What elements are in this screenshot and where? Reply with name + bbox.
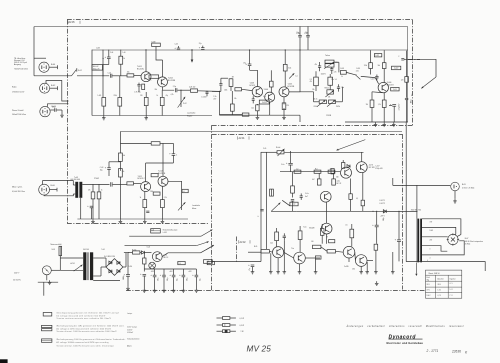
- boxed label PA 1-0xx: [282, 200, 298, 206]
- table column line 1: [434, 275, 436, 298]
- boxed label PSU b: [207, 262, 214, 266]
- svg-text:504 104: 504 104: [83, 249, 89, 251]
- table row line 2: [426, 286, 462, 288]
- svg-text:600 100 000: 600 100 000: [71, 179, 80, 181]
- svg-text:24 B: 24 B: [438, 284, 441, 286]
- resistor R tone mid: [310, 71, 319, 91]
- capacitor C-03: [100, 162, 121, 176]
- wire to preamp2 input: [198, 90, 220, 93]
- svg-text:C-5: C-5: [310, 79, 312, 81]
- pot P-01 bass 25k: [324, 60, 338, 69]
- left column PA wire b: [266, 152, 268, 249]
- ground row d: [172, 288, 176, 292]
- text PU 5B: [326, 115, 332, 117]
- transformer ground: [80, 198, 82, 219]
- svg-text:4,7n: 4,7n: [334, 72, 337, 74]
- svg-text:Tr-03: Tr-03: [74, 176, 78, 179]
- svg-text:B-05: B-05: [462, 184, 466, 186]
- svg-text:1-013: 1-013: [262, 102, 267, 104]
- svg-text:Radio: Radio: [12, 87, 16, 89]
- boxed label PA left: [204, 260, 213, 264]
- filter caps row C b: [160, 269, 169, 288]
- label T-006: [387, 82, 395, 86]
- svg-text:560: 560: [336, 177, 339, 179]
- wire mic upper to transformer: [43, 181, 74, 185]
- svg-text:16µ: 16µ: [100, 170, 103, 172]
- text 100mV: [321, 74, 327, 76]
- dash-dot stub at speaker output: [408, 59, 420, 61]
- svg-text:R-051: R-051: [132, 250, 136, 252]
- wire bus2 left segment: [91, 49, 93, 51]
- resistor column x=120: [118, 76, 122, 116]
- svg-text:1-003: 1-003: [96, 48, 100, 50]
- svg-text:X00 385 730: X00 385 730: [411, 210, 421, 212]
- transformer tap wire 2: [422, 227, 456, 234]
- svg-text:2,2µ: 2,2µ: [173, 86, 176, 88]
- svg-text:P-02: P-02: [183, 103, 187, 105]
- table row line 3: [426, 292, 462, 294]
- wire vertical x=406: [405, 122, 407, 262]
- svg-text:12k: 12k: [366, 104, 369, 106]
- svg-text:2,2n: 2,2n: [331, 79, 334, 81]
- text Netz-Kontroll: [163, 228, 178, 234]
- label mic vals: [88, 155, 167, 199]
- svg-text:50µ: 50µ: [297, 32, 300, 34]
- svg-text:4n7: 4n7: [305, 196, 308, 198]
- svg-text:4,7µ/25V: 4,7µ/25V: [399, 103, 401, 111]
- dash-dot border bottom of top module: [212, 125, 413, 127]
- wire mic supply drop: [119, 132, 121, 144]
- ground mic b: [119, 219, 123, 223]
- svg-text:100µ: 100µ: [167, 277, 169, 281]
- ground rail output stage: [345, 121, 408, 123]
- svg-text:L-051: L-051: [163, 232, 167, 234]
- svg-text:10k: 10k: [127, 72, 130, 74]
- svg-text:+24V: +24V: [188, 271, 191, 273]
- resistor R PA out: [375, 281, 379, 285]
- drawing number 22636: [451, 349, 468, 354]
- label PA mid b: [303, 226, 314, 229]
- svg-text:2,2k: 2,2k: [270, 242, 273, 244]
- svg-text:BC413 B: BC413 B: [387, 85, 395, 87]
- transformer Tr-01 secondary: [90, 252, 93, 280]
- svg-text:BC413C: BC413C: [137, 69, 145, 71]
- resistor R bottom mid: [220, 113, 249, 116]
- rail PA mid: [280, 171, 340, 173]
- wire radio top: [46, 81, 69, 102]
- svg-text:2 - 1771: 2 - 1771: [426, 349, 439, 353]
- note text Mikrofon: [12, 185, 25, 192]
- text 220V: [13, 272, 21, 281]
- svg-text:1k: 1k: [140, 197, 142, 199]
- transistor T-004: [265, 92, 275, 102]
- svg-text:BC413B: BC413B: [168, 80, 176, 82]
- label B-07: [465, 238, 484, 246]
- svg-text:2-022: 2-022: [394, 68, 398, 70]
- svg-text:C-04: C-04: [110, 52, 113, 54]
- svg-text:50 / 60 Hz: 50 / 60 Hz: [13, 279, 21, 281]
- svg-text:3,3n: 3,3n: [356, 70, 359, 72]
- wire tone to switch: [334, 62, 355, 75]
- label caps row volts: [151, 271, 192, 273]
- svg-text:C-017: C-017: [375, 166, 379, 168]
- filter capacitor C stub left: [299, 26, 301, 35]
- connector B-04 (tape DIN socket): [39, 62, 49, 72]
- label 4,7k: [171, 94, 174, 96]
- filter caps row C d: [179, 269, 188, 288]
- emitter resistor BD pair a: [349, 179, 352, 212]
- svg-text:47k: 47k: [328, 97, 331, 99]
- trimmer P stage2: [289, 73, 298, 78]
- ground rail mic stage: [77, 218, 188, 220]
- dash-dot border top edge of amplifier module AV: [67, 19, 413, 21]
- svg-text:47n: 47n: [315, 64, 318, 66]
- svg-text:30 V: 30 V: [427, 284, 430, 286]
- svg-text:Übertr. 30Ω 50: Übertr. 30Ω 50: [429, 272, 440, 275]
- ground PA a: [269, 253, 280, 274]
- transistor T-002 BC413B: [158, 77, 168, 87]
- wire preamp2 rail to main rail: [299, 115, 301, 122]
- label preamp2 values: [224, 76, 289, 109]
- resistor R PA vert row a: [275, 232, 279, 247]
- svg-text:Electronic und Gerätebau: Electronic und Gerätebau: [387, 341, 424, 345]
- svg-text:T-0x: T-0x: [303, 226, 306, 228]
- capacitor C PA corner: [248, 264, 254, 274]
- svg-text:47k: 47k: [310, 81, 313, 83]
- svg-text:0,5 W: 0,5 W: [240, 325, 245, 327]
- notice Aenderungen vorbehalten: [346, 325, 465, 328]
- label B-05: [462, 184, 475, 189]
- svg-text:10k lin: 10k lin: [313, 99, 318, 101]
- transistor T-003 BC413C: [252, 87, 262, 97]
- annotation arrow rail3: [206, 245, 214, 250]
- boxed label 1-021 on bus: [374, 54, 381, 58]
- supply bus wire y=26.5: [34, 26, 408, 28]
- resistor R PA series a: [294, 170, 301, 173]
- resistor R PA left: [270, 189, 274, 196]
- svg-text:1k: 1k: [157, 95, 159, 97]
- ground PA d: [359, 262, 369, 274]
- ground PA e: [374, 252, 395, 274]
- capacitor C-02 4u7: [102, 50, 110, 65]
- svg-text:4µ: 4µ: [102, 58, 104, 60]
- svg-text:50µ: 50µ: [177, 278, 179, 281]
- svg-text:R-0: R-0: [315, 168, 318, 170]
- supply resistor mic: [120, 142, 173, 145]
- capacitor C PA out big: [395, 211, 401, 261]
- svg-text:Phono / Kristall: Phono / Kristall: [12, 109, 24, 112]
- transformer tap wire 1: [422, 219, 461, 235]
- capacitor C PA small: [300, 193, 303, 200]
- text Tiefen: [325, 55, 330, 57]
- capacitor C mic sub a: [87, 205, 93, 219]
- text Lautstaerke mono: [192, 204, 200, 210]
- capacitor C small at volume node: [201, 91, 208, 99]
- label 300-02: [92, 65, 103, 71]
- svg-text:Lautstärke: Lautstärke: [187, 112, 195, 115]
- boxed label PSU a: [178, 262, 185, 266]
- svg-text:39k: 39k: [155, 89, 158, 91]
- wire balance vertical: [314, 87, 343, 102]
- svg-text:120: 120: [401, 80, 404, 82]
- capacitor C-01 input coupling: [108, 72, 127, 77]
- svg-text:100: 100: [311, 241, 314, 243]
- svg-text:4700µ 40V: 4700µ 40V: [375, 168, 382, 170]
- resistor R PA vert row b: [298, 230, 302, 252]
- wire collector T-002: [156, 50, 163, 77]
- wire tape bus after switch: [77, 75, 109, 77]
- wire tape input vertical: [33, 27, 35, 76]
- label 1,5/25V: [213, 96, 217, 100]
- svg-text:1-0: 1-0: [335, 79, 337, 81]
- wire switch to driver: [361, 76, 375, 77]
- switch S mono: [355, 68, 360, 80]
- svg-text:PU/5B: PU/5B: [326, 115, 332, 117]
- component at loop start: [398, 56, 404, 60]
- svg-text:1 MOhm/ 50 mV: 1 MOhm/ 50 mV: [12, 92, 25, 94]
- transistor T-01x PA driver: [320, 191, 331, 202]
- wire loop to speaker arrow: [404, 59, 436, 88]
- ground PA b: [283, 240, 302, 274]
- transformer tap wire 5: [422, 241, 464, 260]
- supply rail wire y=131.5: [120, 131, 402, 133]
- tap ladder wires: [455, 234, 461, 236]
- svg-text:1,5k: 1,5k: [251, 108, 254, 110]
- ground row a: [143, 288, 147, 292]
- filter capacitor C-b: [306, 36, 310, 50]
- svg-text:70V: 70V: [430, 221, 433, 223]
- ground out c: [392, 122, 396, 126]
- svg-text:C-0172: C-0172: [379, 203, 385, 205]
- label C-0171: [379, 200, 385, 205]
- ground PA c: [314, 259, 318, 274]
- connector B-06 terminal stub: [50, 188, 58, 192]
- transformer Tr-03 microphone input: [73, 182, 82, 198]
- capacitor C final: [405, 98, 408, 122]
- svg-text:5,6k: 5,6k: [288, 68, 291, 70]
- long dash-dot chassis line y=291: [126, 290, 425, 292]
- rails from regulator: [162, 246, 213, 257]
- resistor R PA vert b: [332, 173, 336, 185]
- svg-text:Ausgang:: Ausgang:: [14, 63, 22, 66]
- svg-text:27002: 27002: [94, 178, 99, 180]
- legend symbol 3: [42, 339, 52, 342]
- supply rail R1: [129, 235, 201, 237]
- resistor R mic base: [127, 182, 141, 185]
- svg-text:500mV/ 500 kOhm: 500mV/ 500 kOhm: [12, 114, 27, 116]
- svg-text:1-0: 1-0: [296, 168, 298, 170]
- svg-text:1-05: 1-05: [151, 229, 154, 231]
- svg-text:50µ: 50µ: [199, 278, 201, 281]
- svg-text:AV-05: AV-05: [69, 21, 76, 24]
- dash-dot border short segment x=237: [236, 237, 238, 264]
- note text TB-Anschluss: [14, 57, 29, 71]
- svg-text:B-07: B-07: [465, 238, 469, 240]
- connector B-04 terminal stub: [49, 65, 57, 69]
- transistor T-012 mic: [158, 176, 168, 186]
- junction diode PA out: [383, 210, 417, 213]
- fuse Si-01: [59, 246, 62, 255]
- svg-text:PU/5b: PU/5b: [336, 106, 340, 108]
- wire bus2-left drop: [91, 50, 93, 116]
- text Lautsprecher Buchsen: [187, 112, 195, 118]
- annotation arrow rail2: [196, 241, 209, 245]
- resistor R driver a: [369, 50, 373, 74]
- svg-text:C-01: C-01: [108, 72, 112, 74]
- svg-text:Netzanschluß: Netzanschluß: [51, 243, 63, 246]
- svg-text:1k: 1k: [330, 168, 332, 170]
- svg-text:C-0: C-0: [178, 263, 180, 265]
- svg-text:BC328: BC328: [309, 228, 314, 230]
- svg-text:Lautstärke: Lautstärke: [192, 204, 200, 207]
- module label AV-05: [68, 21, 80, 24]
- capacitor C mic series: [111, 182, 112, 186]
- capacitor C bass b: [330, 67, 336, 74]
- transistor T-006 BC413B: [378, 82, 388, 92]
- svg-text:C-03: C-03: [100, 167, 104, 169]
- label vert 100u: [383, 217, 385, 221]
- label BD b: [337, 180, 342, 185]
- svg-text:R-0x4: R-0x4: [276, 147, 280, 149]
- table header line: [426, 274, 462, 276]
- note text C-017 4700u: [375, 166, 382, 171]
- ground mic a: [91, 219, 95, 223]
- label BD a: [369, 164, 375, 169]
- wire mic collector T-012: [162, 143, 164, 176]
- supply bus wire y=49.5: [92, 27, 408, 122]
- svg-text:1,5k: 1,5k: [213, 96, 216, 98]
- resistor R PA series c: [328, 170, 335, 173]
- svg-text:Mikro / symm.: Mikro / symm.: [12, 185, 23, 188]
- node input junction: [103, 65, 109, 76]
- arrow feed down at x=192: [191, 49, 194, 63]
- svg-text:+30V: +30V: [169, 271, 172, 273]
- label 27002: [94, 178, 99, 180]
- label T-012: [158, 171, 166, 175]
- trimmer P-004 input level: [276, 147, 285, 156]
- capacitor C out electrolytic: [389, 103, 396, 122]
- resistor R collector T-004: [270, 70, 274, 92]
- boxed label 2-01v: [391, 87, 399, 91]
- cap label 2x2000u: [296, 33, 308, 35]
- svg-text:1-018: 1-018: [340, 68, 344, 70]
- resistor R lower-left: [230, 91, 234, 115]
- dash-dot border power-amp box top: [212, 134, 403, 136]
- resistor R-09: [189, 86, 198, 92]
- resistor mic divider bottom: [119, 161, 123, 219]
- ground symbol preamp1: [144, 116, 148, 120]
- table column line 2: [447, 275, 449, 298]
- svg-text:4k7: 4k7: [312, 179, 315, 181]
- wire input to first stage: [212, 90, 220, 92]
- svg-text:0,1 W: 0,1 W: [240, 318, 245, 320]
- capacitor bias T-002: [160, 90, 164, 115]
- capacitor C-04 output coupling: [173, 86, 177, 92]
- svg-text:47µ: 47µ: [243, 62, 246, 64]
- capacitor C coupling vertical: [219, 78, 228, 91]
- capacitor C PA 243: [374, 244, 378, 269]
- dash-dot border vertical x=212: [211, 125, 213, 290]
- node junction x=219.5: [219, 91, 220, 115]
- wire mic cap to resistor: [113, 183, 127, 185]
- resistor R-collector T-005: [283, 50, 291, 86]
- svg-text:39k: 39k: [122, 171, 125, 173]
- capacitor C-017: [371, 75, 379, 81]
- table row line 1: [426, 280, 462, 282]
- label PSU vals: [101, 247, 150, 268]
- resistor R PA mid column: [291, 172, 295, 198]
- svg-text:7 : 8: 7 : 8: [450, 295, 453, 297]
- svg-text:220 V~: 220 V~: [14, 272, 20, 274]
- svg-text:B-0: B-0: [208, 263, 210, 265]
- boxed label 1-013: [259, 100, 269, 104]
- wire PA top columns: [277, 224, 352, 232]
- label driver values: [364, 65, 404, 106]
- svg-text:0-300mV: 0-300mV: [127, 332, 133, 334]
- legend resistor symbol 1W: [217, 330, 244, 333]
- resistor R PA row c: [327, 250, 335, 253]
- resistor R emitter stage2a: [256, 104, 259, 115]
- mains connector circle: [42, 266, 51, 275]
- label tone values: [312, 79, 334, 101]
- diode D-05: [140, 251, 152, 254]
- svg-text:C-0x: C-0x: [281, 164, 285, 166]
- resistor column x=104: [102, 98, 106, 116]
- text Netzanschluss: [51, 243, 63, 246]
- svg-text:1k: 1k: [123, 58, 125, 60]
- junction dots PA: [372, 211, 399, 212]
- resistor R mic shunt a: [91, 184, 95, 219]
- ground symbol preamp1 b: [102, 116, 106, 120]
- svg-text:0,5: 0,5: [345, 225, 347, 227]
- capacitor C PA mid column: [291, 200, 294, 212]
- svg-text:1-00: 1-00: [123, 52, 126, 54]
- capacitor C-050 main: [123, 253, 130, 287]
- svg-text:1-019: 1-019: [356, 68, 360, 70]
- label PA driver parts: [305, 193, 309, 198]
- ground phono: [60, 113, 64, 117]
- label B-03: [52, 106, 57, 108]
- resistor R PA series b: [314, 170, 321, 173]
- label T-002: [168, 77, 176, 82]
- svg-text:4,7k: 4,7k: [171, 94, 174, 96]
- svg-text:100µ: 100µ: [383, 217, 385, 221]
- wire emitter T-002 out: [163, 87, 175, 90]
- svg-text:2,2k: 2,2k: [164, 197, 167, 199]
- svg-text:Höhen: Höhen: [325, 88, 330, 90]
- wire out to tone: [289, 91, 314, 93]
- table header text: [429, 272, 440, 275]
- resistor R bias vertical: [229, 78, 233, 91]
- svg-text:1,5/25V: 1,5/25V: [201, 96, 206, 98]
- text Hoehen: [325, 88, 330, 90]
- table Siebkette frame: [426, 270, 462, 298]
- svg-text:Tonbandaufnahme: Tonbandaufnahme: [127, 338, 140, 340]
- resistor mic divider top: [119, 143, 123, 161]
- transformer Tr-01 mains primary: [83, 252, 86, 280]
- bridge rectifier D-01: [106, 259, 123, 276]
- label X00 385 730: [411, 210, 421, 212]
- ground row c: [162, 288, 166, 292]
- svg-text:47k: 47k: [88, 190, 91, 192]
- transformer core lines: [416, 219, 418, 263]
- ground rail preamp2 box: [220, 114, 301, 116]
- filter capacitor C-a: [298, 36, 302, 50]
- resistor R emitter b: [382, 93, 386, 122]
- svg-text:BC 32: BC 32: [337, 183, 342, 185]
- capacitor C-08 on bus: [199, 43, 205, 50]
- svg-text:MV 25: MV 25: [247, 345, 272, 354]
